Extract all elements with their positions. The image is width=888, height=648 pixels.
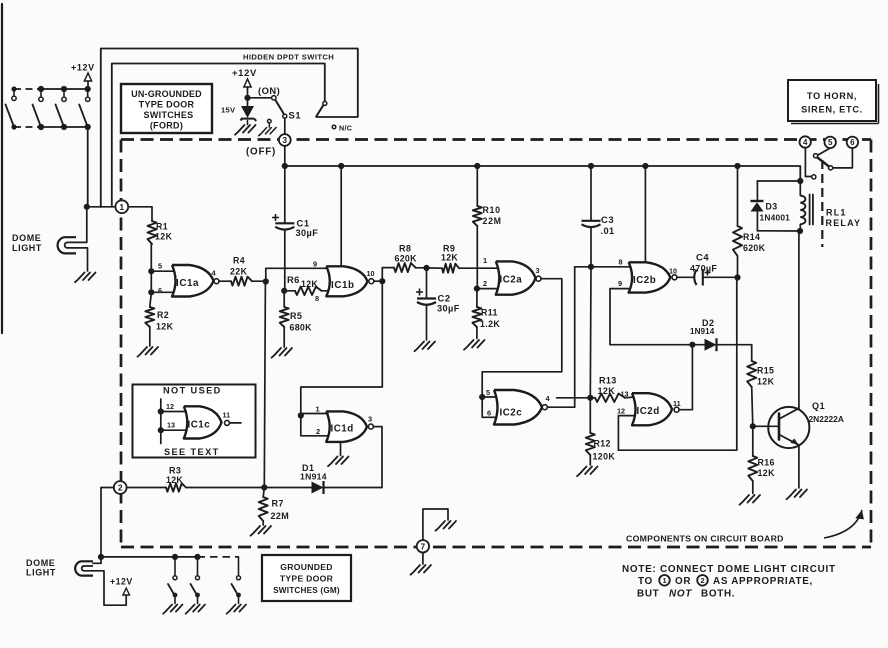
- svg-text:120K: 120K: [593, 452, 616, 462]
- svg-text:620K: 620K: [743, 243, 766, 253]
- resistor R16: [752, 426, 754, 456]
- svg-text:R7: R7: [272, 499, 284, 509]
- wire - IC1d out to D1 cathode line: [373, 427, 382, 488]
- svg-text:SWITCHES: SWITCHES: [144, 110, 194, 120]
- junction - rail at IC1b supply: [338, 163, 344, 169]
- resistor R9: [442, 264, 459, 273]
- svg-text:IC1c: IC1c: [188, 420, 211, 431]
- svg-text:R16: R16: [758, 458, 775, 468]
- capacitor C2: [426, 268, 428, 299]
- svg-text:2: 2: [118, 483, 123, 493]
- wire - junction down to IC1d inputs: [264, 282, 265, 488]
- junction - dome light 2 rail: [98, 554, 104, 560]
- wire - pin 2 stub (IC2a): [477, 288, 498, 290]
- ground (Q1 emitter): [787, 490, 808, 500]
- wire - IC1a out to R4: [219, 280, 231, 282]
- wire - R5 to ground: [283, 327, 285, 347]
- svg-text:6: 6: [850, 138, 855, 147]
- door switch S-gm-3: [238, 557, 240, 575]
- junction - IC2a pin 2: [474, 286, 480, 292]
- wire - relay contact to terminal 6: [833, 148, 853, 168]
- junction - R3/R7/D1: [261, 484, 267, 490]
- svg-text:(ON): (ON): [258, 85, 280, 96]
- svg-text:13: 13: [167, 421, 175, 430]
- svg-text:1.2K: 1.2K: [480, 319, 500, 329]
- IC2a output bubble: [536, 276, 541, 281]
- terminal 4: [800, 136, 811, 147]
- wire - pin 5 stub: [151, 270, 174, 272]
- svg-text:22M: 22M: [483, 216, 502, 226]
- svg-text:620K: 620K: [395, 254, 418, 264]
- svg-text:BUT: BUT: [637, 589, 659, 600]
- svg-text:4: 4: [803, 138, 808, 147]
- svg-text:R4: R4: [233, 256, 245, 266]
- label box UN-GROUNDED TYPE DOOR SWITCHES (FORD): [121, 84, 212, 133]
- svg-text:DOME: DOME: [12, 233, 41, 243]
- svg-text:12K: 12K: [757, 377, 775, 387]
- wire - GM switch rail: [101, 556, 198, 558]
- svg-text:3: 3: [282, 135, 287, 145]
- capacitor C1: [284, 166, 286, 223]
- svg-text:1N4001: 1N4001: [760, 213, 791, 223]
- wire - C3 column down to R13 junction: [589, 267, 592, 398]
- svg-text:RELAY: RELAY: [826, 218, 862, 228]
- svg-text:IC2c: IC2c: [500, 408, 523, 419]
- wire - node 7 lower stub: [422, 553, 424, 564]
- svg-text:3: 3: [536, 266, 540, 275]
- wire W1 - outer loop of hidden switch to node 1: [101, 49, 358, 208]
- op-amp gate IC1d: [326, 411, 367, 442]
- svg-text:1: 1: [316, 405, 320, 414]
- wire - R16 to ground: [752, 481, 754, 494]
- switch S1 pole 2: [323, 101, 327, 105]
- junction - rail at IC2b supply: [642, 163, 648, 169]
- svg-text:R15: R15: [757, 366, 774, 376]
- svg-text:COMPONENTS ON CIRCUIT BOARD: COMPONENTS ON CIRCUIT BOARD: [626, 534, 784, 544]
- svg-text:2: 2: [700, 576, 704, 585]
- svg-text:22K: 22K: [230, 267, 248, 277]
- wire - dome light 1 bottom lead to ground: [76, 248, 88, 271]
- op-amp gate IC1a: [172, 265, 214, 297]
- wire - IC2d pin 12 feedback from C4/R14: [618, 278, 736, 451]
- svg-text:1N914: 1N914: [300, 472, 327, 482]
- svg-text:R11: R11: [481, 308, 498, 318]
- svg-text:5: 5: [158, 262, 162, 271]
- terminal 5: [825, 137, 836, 148]
- svg-text:1: 1: [662, 576, 666, 585]
- page border line (left edge): [1, 4, 3, 333]
- circuit board dashed border - right: [870, 140, 873, 548]
- op-amp gate IC1b: [326, 266, 367, 296]
- ground (R7): [251, 526, 272, 536]
- IC2d output bubble: [674, 407, 679, 412]
- op-amp gate IC2c: [494, 390, 542, 425]
- relay contact arm: [817, 158, 829, 167]
- junction - rail at C3: [588, 163, 594, 169]
- junction - IC2c inputs: [479, 394, 485, 400]
- junction - IC1a pin 5: [148, 268, 154, 274]
- wire - IC2c pin 5/6 tie: [482, 397, 496, 417]
- svg-text:Q1: Q1: [812, 401, 825, 411]
- svg-text:S1: S1: [289, 110, 302, 121]
- IC2c output bubble: [542, 405, 547, 410]
- wire - junction to R8: [382, 268, 394, 282]
- ground (R16): [740, 495, 761, 505]
- junction - R13/R12/C3 column: [587, 395, 593, 401]
- junction - IC1a pin 6: [148, 289, 154, 295]
- resistor R13: [595, 394, 625, 402]
- junction - R4 / pin9 / IC1d feed: [263, 278, 269, 284]
- svg-text:R13: R13: [599, 376, 617, 386]
- junction - rail at R10: [474, 163, 480, 169]
- wire - IC1d pin 1 stub: [301, 413, 328, 415]
- junction - IC1d pins 1/2 tie: [298, 412, 304, 418]
- resistor R2: [145, 307, 154, 327]
- resistor R1: [148, 221, 157, 244]
- svg-text:(FORD): (FORD): [150, 121, 183, 131]
- resistor R3: [127, 487, 166, 489]
- svg-text:8: 8: [315, 294, 319, 303]
- svg-text:5: 5: [828, 138, 833, 147]
- wire - IC1d pin 2 loop: [301, 416, 328, 436]
- svg-text:R12: R12: [594, 439, 611, 449]
- relay contact pivot (from terminal 5): [818, 148, 830, 155]
- svg-text:R2: R2: [157, 310, 169, 320]
- svg-text:5: 5: [486, 388, 490, 397]
- svg-text:IC1d: IC1d: [331, 424, 354, 435]
- ground (R11): [464, 340, 485, 350]
- svg-text:680K: 680K: [290, 323, 313, 333]
- switch S1 pole 1: [248, 97, 272, 99]
- resistor R15: [751, 345, 753, 361]
- door switch S-ford-3: [85, 86, 91, 92]
- svg-text:DOME: DOME: [26, 558, 55, 568]
- svg-text:C2: C2: [438, 293, 451, 304]
- wire - top rail of FORD switches: [41, 88, 89, 90]
- svg-text:C4: C4: [696, 252, 709, 263]
- ground (R5): [272, 348, 293, 358]
- wire - D3 bottom to relay coil bottom: [757, 230, 800, 232]
- svg-text:NOTE: CONNECT DOME LIGHT CIRCU: NOTE: CONNECT DOME LIGHT CIRCUIT: [622, 564, 836, 575]
- op-amp gate IC2d: [632, 393, 672, 425]
- node 3 terminal: [279, 134, 291, 146]
- svg-text:12K: 12K: [301, 279, 318, 289]
- ground (node 7 lower): [411, 565, 432, 575]
- circuit board dashed border - top: [121, 138, 871, 141]
- wire - dome light 2 top lead: [93, 562, 101, 564]
- wire - IC1b out down to IC1d input loop: [301, 281, 383, 413]
- svg-text:NOT: NOT: [669, 589, 692, 600]
- IC2b output bubble: [672, 275, 677, 280]
- wire - dashed extension bottom rail: [14, 126, 40, 128]
- wire - IC2c out up to IC2b pin 8 line: [547, 267, 574, 407]
- svg-text:IC2b: IC2b: [633, 275, 656, 286]
- junction - rail at R14: [734, 163, 740, 169]
- svg-text:.01: .01: [601, 226, 615, 236]
- terminal 6: [847, 137, 858, 148]
- junction - IC1c pin 13: [158, 427, 164, 433]
- node 7 terminal: [417, 540, 429, 552]
- arrow to circuit board border: [824, 510, 862, 538]
- svg-text:C1: C1: [297, 218, 310, 229]
- IC1c output stub: [230, 422, 242, 424]
- svg-text:12K: 12K: [441, 253, 458, 263]
- svg-text:1: 1: [119, 202, 124, 212]
- svg-text:9: 9: [313, 260, 317, 269]
- junction - C4/R14: [734, 274, 740, 280]
- door switch S-gm-1: [172, 554, 178, 560]
- resistor R5: [280, 307, 289, 327]
- junction - zener/S1 node: [244, 95, 250, 101]
- svg-text:+12V: +12V: [232, 67, 257, 78]
- resistor R8: [394, 263, 416, 272]
- svg-text:3: 3: [368, 415, 372, 424]
- junction - IC1b out: [379, 278, 385, 284]
- ground (node 7 upper): [436, 521, 457, 531]
- wire - GM switch rail dashed segment: [198, 556, 239, 558]
- wire - rail drop to IC1b gate top: [340, 166, 342, 267]
- svg-text:12K: 12K: [758, 468, 776, 478]
- ground (R2): [138, 347, 159, 357]
- wire - dome light 1 top lead: [76, 207, 87, 243]
- junction - IC1c pin 12: [158, 408, 164, 414]
- svg-text:30µF: 30µF: [296, 228, 319, 238]
- wire - IC2a out to IC2c inputs: [482, 279, 562, 397]
- circuit board dashed border - left: [120, 140, 123, 548]
- wire - node 7 upper ground hook: [423, 509, 448, 540]
- wire - bottom rail of FORD switches: [41, 126, 89, 128]
- +12V arrow (bottom): [123, 588, 130, 595]
- junction - R6/R5/C1: [281, 288, 287, 294]
- wire - R3 to D1 junction: [186, 487, 264, 489]
- svg-text:22M: 22M: [271, 511, 290, 521]
- transistor Q1 2N2222A: [768, 407, 809, 448]
- wire - IC2d out up to D2 junction: [679, 345, 692, 410]
- svg-text:8: 8: [619, 258, 623, 267]
- svg-text:+12V: +12V: [110, 577, 133, 587]
- op-amp gate IC2b: [629, 262, 671, 292]
- +12V arrow (S1): [244, 79, 251, 87]
- svg-text:R14: R14: [743, 232, 760, 242]
- svg-text:10: 10: [367, 269, 375, 278]
- svg-text:TYPE DOOR: TYPE DOOR: [280, 574, 334, 584]
- door switch S-ford-1: [38, 86, 44, 92]
- wire - junction up to IC1b pin 9: [266, 268, 328, 281]
- wire - IC1c input ties: [160, 399, 162, 444]
- wire - R9 to IC2a pin 1: [462, 267, 498, 269]
- svg-text:1N914: 1N914: [690, 327, 715, 336]
- svg-text:GROUNDED: GROUNDED: [280, 562, 333, 572]
- svg-text:2N2222A: 2N2222A: [809, 414, 844, 424]
- svg-text:9: 9: [618, 279, 622, 288]
- svg-text:R8: R8: [399, 244, 411, 254]
- svg-text:6: 6: [487, 409, 491, 418]
- wire - R4 to junction: [252, 280, 266, 282]
- wire - Q1 emitter to ground: [798, 445, 800, 488]
- svg-text:RL1: RL1: [826, 208, 847, 218]
- relay RL1 dashed outline: [821, 160, 823, 247]
- dome light 1 lamp: [58, 237, 76, 253]
- node 1 terminal: [115, 200, 128, 213]
- wire - from FORD switch rail down to dome light junction: [87, 127, 89, 207]
- wire - pin 8 input line (IC2b): [575, 266, 630, 268]
- +12V arrow (door switches): [84, 73, 91, 81]
- svg-text:11: 11: [223, 411, 231, 420]
- wire - pin 6 stub: [151, 291, 174, 293]
- node 2 terminal: [114, 481, 127, 494]
- svg-text:R3: R3: [169, 466, 181, 476]
- svg-text:D3: D3: [766, 202, 778, 212]
- wire - R12 to ground: [589, 455, 591, 465]
- wire - IC1b out to junction: [374, 280, 382, 282]
- label box GROUNDED TYPE DOOR SWITCHES (GM): [262, 555, 351, 601]
- svg-text:2: 2: [316, 427, 320, 436]
- wire - S1 pole1 common down to node 3: [284, 118, 286, 134]
- op-amp gate IC2a: [496, 261, 536, 294]
- wire - node 1 to dome light junction: [87, 206, 116, 208]
- diode D3 1N4001: [756, 181, 758, 201]
- svg-text:12K: 12K: [166, 475, 183, 485]
- svg-text:SEE TEXT: SEE TEXT: [164, 447, 220, 457]
- svg-text:(OFF): (OFF): [246, 147, 276, 158]
- wire - IC2b pin 9 stub and feedback drop: [610, 289, 692, 345]
- door switch S-ford-2: [61, 86, 67, 92]
- wire - R2 to ground: [149, 327, 151, 346]
- svg-text:R6: R6: [287, 274, 300, 285]
- svg-text:IC2d: IC2d: [637, 406, 660, 417]
- diode D1 1N914: [264, 487, 311, 489]
- svg-text:6: 6: [158, 286, 162, 295]
- svg-text:IC1a: IC1a: [176, 278, 199, 289]
- svg-text:13: 13: [621, 390, 629, 399]
- N/C contact: [332, 125, 336, 129]
- svg-text:AS APPROPRIATE,: AS APPROPRIATE,: [713, 576, 813, 587]
- svg-text:R5: R5: [290, 311, 302, 321]
- diode D2 1N914: [692, 344, 704, 346]
- svg-text:7: 7: [421, 541, 426, 551]
- svg-text:TO HORN,: TO HORN,: [807, 91, 857, 101]
- junction - rail at C1: [282, 163, 288, 169]
- resistor R6: [284, 290, 295, 292]
- resistor R11: [476, 289, 478, 307]
- wire - node 1 to R1: [128, 207, 152, 221]
- wire - R1 to IC1a inputs: [150, 244, 152, 293]
- ground (zener): [247, 121, 249, 125]
- junction - R8/R9/C2: [423, 265, 429, 271]
- wire - dashed extension top rail: [14, 88, 40, 90]
- wire - node 2 to dome light 2: [101, 488, 114, 564]
- svg-text:N/C: N/C: [339, 124, 352, 133]
- svg-text:R10: R10: [483, 205, 501, 215]
- junction - C3/pin8: [588, 264, 594, 270]
- wire - D3 top to relay coil top: [757, 180, 800, 182]
- wire - R10 to IC2a pin 2: [476, 226, 478, 289]
- svg-text:NOT USED: NOT USED: [163, 386, 222, 396]
- wire - R11 to ground: [476, 327, 478, 339]
- svg-text:R1: R1: [156, 222, 168, 232]
- svg-text:12K: 12K: [598, 386, 616, 396]
- svg-text:1: 1: [483, 256, 487, 265]
- wire - R6 to IC1b pin 8: [322, 290, 329, 292]
- junction - D2 anode / IC2d out / IC2b pin9: [689, 342, 695, 348]
- svg-text:30µF: 30µF: [437, 304, 460, 314]
- relay RL1 core lines: [809, 195, 811, 225]
- svg-text:BOTH.: BOTH.: [701, 589, 735, 600]
- svg-text:SWITCHES (GM): SWITCHES (GM): [273, 586, 340, 595]
- ground (C2): [415, 342, 436, 352]
- ground (IC1d): [340, 442, 342, 456]
- junction - dome light 1: [84, 204, 90, 210]
- dome light 2 lamp: [75, 561, 93, 575]
- IC1b output bubble: [369, 279, 374, 284]
- svg-text:SIREN, ETC.: SIREN, ETC.: [801, 105, 863, 115]
- wire - dome light 2 bottom lead to +12V: [93, 571, 126, 605]
- svg-text:LIGHT: LIGHT: [12, 243, 42, 253]
- wire - R13 to IC2d pin 13: [625, 396, 634, 399]
- wire W2 - inner loop of hidden switch to node 1: [112, 64, 325, 207]
- junction - relay coil bottom: [797, 228, 803, 234]
- label box NOT USED / SEE TEXT: [133, 385, 256, 458]
- IC1a output bubble: [214, 279, 219, 284]
- relay RL1 coil: [800, 196, 805, 225]
- svg-text:C3: C3: [601, 214, 614, 225]
- svg-text:2: 2: [483, 279, 487, 288]
- wire - rail drop to IC2b gate top: [644, 166, 646, 262]
- svg-text:IC2a: IC2a: [500, 275, 523, 286]
- door switch S-gm-2: [194, 554, 200, 560]
- resistor R12: [589, 398, 591, 433]
- svg-text:+12V: +12V: [71, 63, 95, 73]
- resistor R4: [231, 277, 252, 286]
- circuit board dashed border - bottom: [121, 546, 871, 549]
- svg-text:HIDDEN DPDT SWITCH: HIDDEN DPDT SWITCH: [243, 53, 334, 62]
- svg-text:12: 12: [617, 407, 625, 416]
- resistor R14: [737, 166, 739, 226]
- svg-text:10: 10: [669, 267, 677, 276]
- capacitor C3: [590, 166, 592, 221]
- label box TO HORN SIREN ETC: [788, 80, 876, 121]
- resistor R7: [263, 488, 264, 498]
- wire - Q1 collector to relay coil: [798, 231, 800, 408]
- svg-text:12: 12: [166, 402, 174, 411]
- svg-text:UN-GROUNDED: UN-GROUNDED: [131, 89, 202, 99]
- ground (dome light 1): [75, 273, 96, 283]
- wire - node 3 to main +12 rail: [284, 146, 286, 166]
- (OFF) contact with ground: [268, 119, 272, 123]
- wire - main +12V rail across board: [285, 166, 801, 181]
- wire - terminal 4 to N.O. contact: [805, 148, 810, 177]
- IC1d output bubble: [368, 424, 373, 429]
- svg-text:IC1b: IC1b: [331, 280, 355, 291]
- svg-text:470µF: 470µF: [690, 264, 717, 274]
- wire - R8 to C2 junction: [416, 267, 427, 269]
- svg-text:TYPE DOOR: TYPE DOOR: [139, 100, 195, 110]
- zener diode D-15V: [247, 98, 249, 106]
- door switch S-ford-0 (dashed, leftmost): [11, 86, 16, 91]
- svg-text:12K: 12K: [155, 232, 173, 242]
- junction - Q1 base / R15 / R16: [750, 423, 756, 429]
- ground (R12): [577, 467, 598, 477]
- svg-text:TO: TO: [638, 576, 653, 587]
- resistor R10: [476, 166, 478, 206]
- svg-text:15V: 15V: [221, 106, 236, 115]
- junction - relay coil top: [797, 178, 803, 184]
- wire - stub left of R13 junction: [557, 397, 591, 399]
- svg-text:OR: OR: [675, 576, 691, 587]
- op-amp gate IC1c: [184, 406, 222, 438]
- IC1c output bubble: [225, 420, 230, 425]
- capacitor C4: [677, 276, 694, 278]
